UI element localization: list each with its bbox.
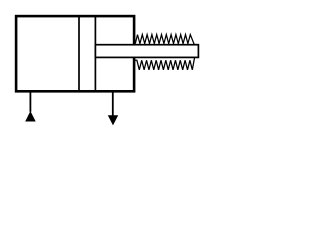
port line left — [29, 91, 31, 111]
piston rod — [95, 45, 198, 58]
return spring lower — [135, 58, 195, 70]
exhaust arrowhead (down) — [108, 115, 118, 125]
return spring upper — [135, 35, 194, 45]
port line right — [112, 91, 114, 116]
cylinder body — [16, 16, 134, 91]
piston line right — [94, 17, 96, 92]
piston line left — [78, 17, 80, 92]
supply triangle (up) — [25, 111, 36, 122]
